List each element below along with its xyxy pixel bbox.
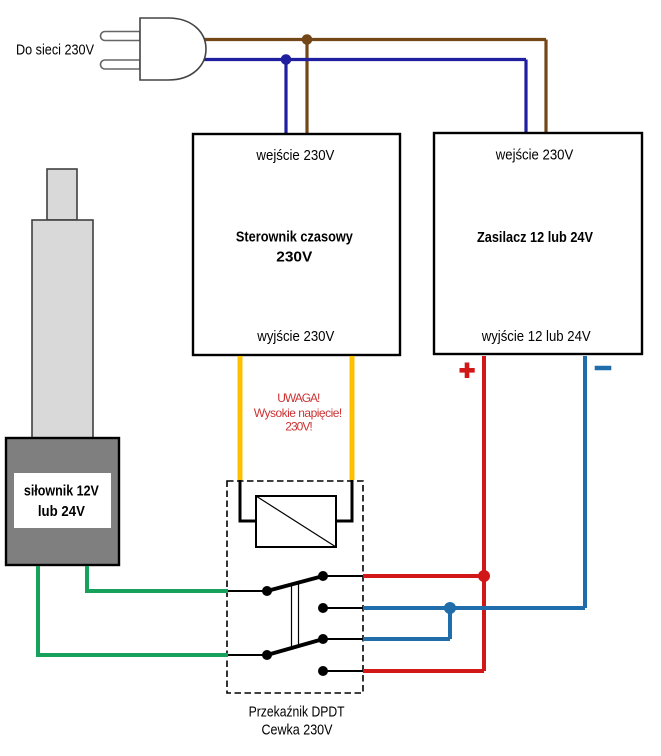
- contact dot common 1: [262, 586, 272, 596]
- wire yellow coil right: [350, 356, 355, 480]
- wire blue minus vertical: [583, 356, 587, 608]
- svg-text:wyjście 12 lub 24V: wyjście 12 lub 24V: [481, 329, 591, 345]
- contact stub common 1: [228, 590, 267, 592]
- contact stub NC2: [323, 670, 363, 672]
- contact dot common 2: [262, 650, 272, 660]
- actuator M1 rod tip: [47, 169, 77, 220]
- wire blue to NC1: [363, 606, 585, 610]
- plug P1 mains plug: [101, 18, 207, 80]
- wire blue to NO2: [363, 637, 450, 641]
- contact dot NO2: [318, 634, 328, 644]
- svg-text:UWAGA!: UWAGA!: [277, 391, 320, 405]
- svg-text:lub 24V: lub 24V: [38, 504, 85, 520]
- svg-text:siłownik 12V: siłownik 12V: [24, 484, 99, 500]
- label minus sign: [595, 366, 612, 371]
- junction dot dark-blue node: [281, 54, 292, 65]
- wire dark-blue vertical to Zasilacz: [524, 60, 527, 134]
- box U1 Sterownik czasowy: [193, 134, 400, 355]
- coil K1 diagonal: [256, 496, 336, 547]
- contact stub NO2: [323, 638, 363, 640]
- label plus sign: [460, 363, 475, 379]
- wire brown mains L horizontal: [203, 38, 546, 41]
- wire dark-blue vertical to Sterownik: [284, 60, 287, 135]
- wire red to NC2: [363, 669, 484, 673]
- wire yellow coil left: [238, 356, 243, 480]
- wire blue branch vertical: [448, 608, 452, 639]
- svg-text:Zasilacz 12 lub 24V: Zasilacz 12 lub 24V: [477, 230, 593, 246]
- armature pole 1: [267, 576, 325, 592]
- svg-text:wyjście 230V: wyjście 230V: [256, 329, 334, 345]
- contact stub NO1: [323, 575, 363, 577]
- coil terminal wire right: [336, 480, 352, 521]
- svg-text:Przekaźnik DPDT: Przekaźnik DPDT: [249, 705, 345, 721]
- svg-text:Cewka 230V: Cewka 230V: [262, 723, 333, 739]
- wire green actuator upper: [87, 566, 228, 591]
- coil terminal wire left: [240, 480, 256, 521]
- contact stub common 2: [228, 654, 267, 656]
- coil K1 body: [256, 496, 336, 547]
- contact dot NC1: [318, 603, 328, 613]
- actuator M1 shaft: [32, 220, 93, 438]
- svg-text:wejście 230V: wejście 230V: [495, 148, 574, 164]
- mechanical link line 1: [291, 584, 293, 650]
- wire red plus vertical: [482, 356, 486, 671]
- mechanical link line 2: [298, 582, 300, 648]
- contact dot NO1: [318, 571, 328, 581]
- wire brown vertical to Sterownik: [305, 40, 308, 135]
- armature pole 2: [267, 639, 325, 656]
- wire red to NO1: [363, 574, 484, 578]
- junction dot brown node: [302, 34, 313, 45]
- warning text UWAGA 230V: [254, 391, 343, 434]
- svg-text:Wysokie napięcie!: Wysokie napięcie!: [254, 406, 343, 420]
- box U2 Zasilacz: [434, 133, 642, 354]
- actuator label plate: [14, 473, 111, 528]
- junction dot red node: [478, 570, 490, 582]
- svg-text:Sterownik czasowy: Sterownik czasowy: [236, 230, 353, 246]
- wire brown vertical to Zasilacz: [544, 40, 547, 134]
- wire green actuator lower: [38, 566, 228, 655]
- wire dark-blue mains N horizontal: [203, 58, 526, 61]
- svg-text:Do sieci 230V: Do sieci 230V: [16, 43, 94, 59]
- svg-text:wejście 230V: wejście 230V: [255, 148, 334, 164]
- relay K1 dashed enclosure: [227, 481, 363, 693]
- contact dot NC2: [318, 666, 328, 676]
- junction dot blue node: [444, 602, 456, 614]
- svg-text:230V: 230V: [276, 250, 312, 266]
- svg-text:230V!: 230V!: [285, 420, 313, 434]
- actuator M1 motor body: [6, 438, 119, 565]
- contact stub NC1: [323, 607, 363, 609]
